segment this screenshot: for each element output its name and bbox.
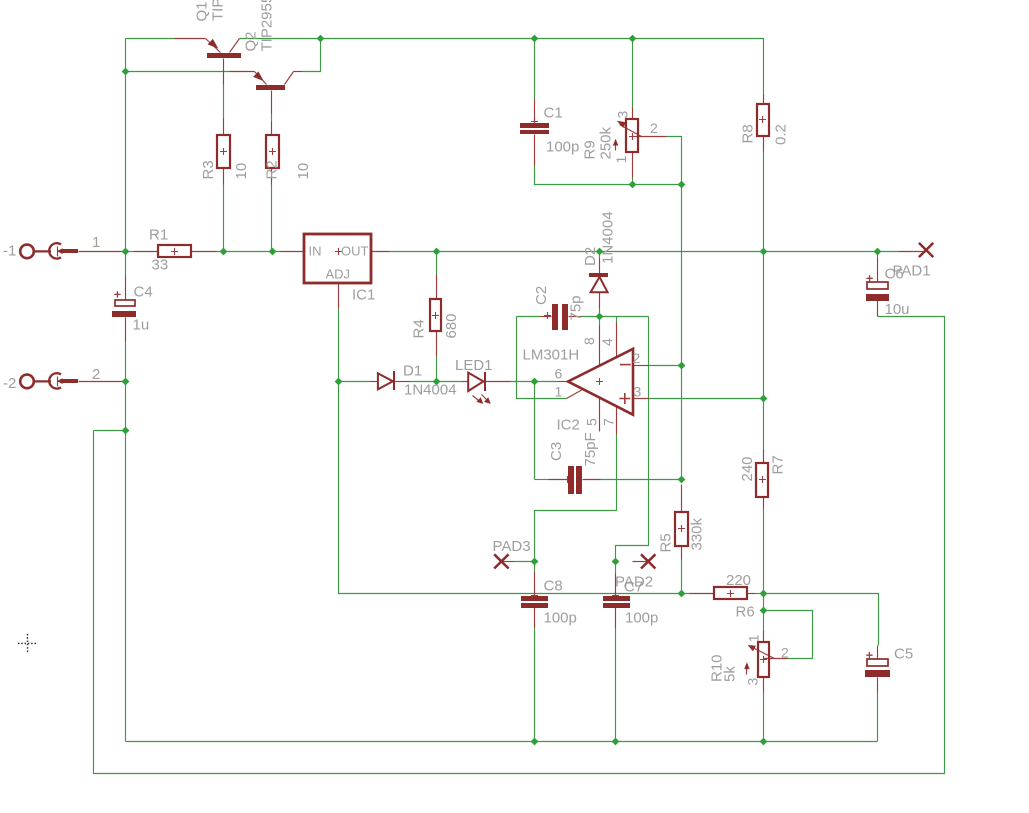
svg-text:C8: C8 bbox=[544, 578, 563, 595]
svg-text:IN: IN bbox=[309, 244, 322, 259]
svg-text:R3: R3 bbox=[200, 160, 217, 179]
svg-text:TIP2955: TIP2955 bbox=[259, 0, 276, 52]
svg-text:8: 8 bbox=[581, 337, 597, 345]
svg-text:100p: 100p bbox=[546, 139, 579, 156]
svg-text:R8: R8 bbox=[740, 124, 757, 143]
svg-text:3: 3 bbox=[615, 111, 631, 119]
svg-text:7: 7 bbox=[601, 418, 617, 426]
svg-text:R6: R6 bbox=[736, 604, 755, 621]
svg-text:C3: C3 bbox=[548, 442, 565, 461]
svg-text:330k: 330k bbox=[689, 517, 706, 550]
svg-text:0.2: 0.2 bbox=[773, 124, 790, 145]
svg-text:-2: -2 bbox=[3, 375, 16, 392]
svg-text:IC2: IC2 bbox=[557, 417, 580, 434]
svg-text:C5: C5 bbox=[894, 646, 913, 663]
svg-text:1N4004: 1N4004 bbox=[404, 382, 457, 399]
svg-text:75p: 75p bbox=[568, 295, 585, 320]
svg-text:5k: 5k bbox=[722, 666, 739, 682]
svg-text:C6: C6 bbox=[885, 266, 904, 283]
svg-text:33: 33 bbox=[152, 257, 169, 274]
svg-text:C7: C7 bbox=[624, 579, 643, 596]
svg-text:Q1: Q1 bbox=[194, 1, 211, 21]
svg-text:1: 1 bbox=[92, 234, 100, 251]
svg-text:R4: R4 bbox=[411, 319, 428, 338]
svg-text:LED1: LED1 bbox=[455, 357, 493, 374]
svg-text:1: 1 bbox=[613, 156, 629, 164]
svg-text:LM301H: LM301H bbox=[523, 347, 580, 364]
svg-text:D2: D2 bbox=[582, 247, 599, 266]
svg-text:100p: 100p bbox=[625, 610, 658, 627]
svg-text:10: 10 bbox=[233, 163, 250, 180]
svg-text:250k: 250k bbox=[598, 126, 615, 159]
svg-text:75pF: 75pF bbox=[582, 432, 599, 466]
svg-text:100p: 100p bbox=[544, 610, 577, 627]
svg-text:1u: 1u bbox=[133, 317, 150, 334]
svg-text:4: 4 bbox=[599, 338, 615, 346]
svg-text:2: 2 bbox=[781, 645, 789, 661]
svg-text:2: 2 bbox=[633, 350, 641, 366]
svg-text:TIP2955: TIP2955 bbox=[210, 0, 227, 21]
svg-text:10: 10 bbox=[295, 163, 312, 180]
svg-text:IC1: IC1 bbox=[352, 287, 375, 304]
svg-text:5: 5 bbox=[584, 418, 600, 426]
svg-text:Q2: Q2 bbox=[243, 31, 260, 51]
svg-text:2: 2 bbox=[650, 120, 658, 136]
svg-text:240: 240 bbox=[739, 456, 756, 481]
svg-text:680: 680 bbox=[443, 313, 460, 338]
svg-text:R1: R1 bbox=[149, 227, 168, 244]
svg-text:R7: R7 bbox=[770, 455, 787, 474]
svg-text:R5: R5 bbox=[658, 533, 675, 552]
svg-text:PAD3: PAD3 bbox=[493, 538, 531, 555]
svg-text:3: 3 bbox=[634, 384, 642, 400]
svg-text:-1: -1 bbox=[3, 243, 16, 260]
svg-text:C2: C2 bbox=[533, 286, 550, 305]
svg-text:10u: 10u bbox=[885, 301, 910, 318]
svg-text:R9: R9 bbox=[582, 140, 599, 159]
svg-text:C4: C4 bbox=[134, 284, 153, 301]
svg-text:C1: C1 bbox=[544, 105, 563, 122]
svg-text:ADJ: ADJ bbox=[326, 267, 351, 282]
svg-text:6: 6 bbox=[555, 366, 563, 382]
svg-text:2: 2 bbox=[92, 366, 100, 383]
svg-text:1: 1 bbox=[555, 384, 563, 400]
svg-text:1: 1 bbox=[746, 634, 762, 642]
svg-text:1N4004: 1N4004 bbox=[600, 211, 617, 264]
svg-text:220: 220 bbox=[726, 572, 751, 589]
svg-text:3: 3 bbox=[745, 678, 761, 686]
svg-text:D1: D1 bbox=[403, 363, 422, 380]
svg-text:R2: R2 bbox=[264, 160, 281, 179]
svg-text:OUT: OUT bbox=[341, 244, 369, 259]
